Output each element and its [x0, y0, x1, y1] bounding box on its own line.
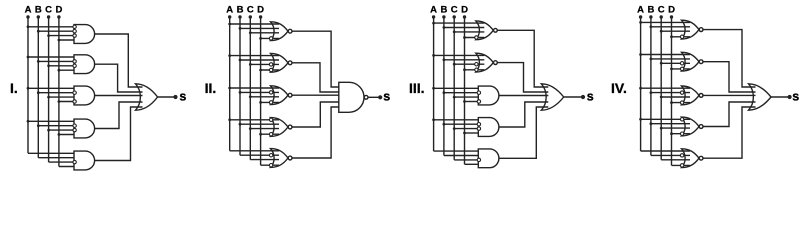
wire: gate II.G1 output to final gate input 1	[292, 31, 346, 87]
junction dot on line B at gate I.G4 tap	[37, 124, 40, 127]
junction dot on line B at gate III.G3 tap	[443, 91, 446, 94]
junction dot on line C at gate I.G2 tap	[47, 64, 50, 67]
wire: B to gate I.G4 input 2	[38, 125, 76, 127]
wire: C to gate I.G1 input 3	[49, 35, 76, 37]
junction dot on line D at gate III.G1 tap	[463, 36, 466, 39]
input bubble on II.G1 input 4	[269, 37, 272, 40]
wire: A to gate IV.G1 input 1	[641, 21, 690, 23]
junction dot on line A at gate III.G3 tap	[432, 87, 435, 90]
wire: A to gate III.G4 input 1	[434, 119, 481, 121]
NOR gate IV.G2	[682, 52, 700, 71]
input bubble on I.G1 input 1	[73, 25, 76, 28]
input terminal dot C (IV)	[660, 15, 663, 18]
wire: D to gate IV.G5 input 4	[672, 164, 691, 166]
junction dot on line D at gate II.G2 tap	[259, 69, 262, 72]
output terminal dot (I)	[173, 95, 177, 99]
wire: D to gate I.G3 input 4	[59, 101, 76, 103]
junction dot on line B at gate I.G2 tap	[37, 60, 40, 63]
wire: A to gate III.G5 input 1	[434, 150, 481, 152]
junction dot on line D at gate IV.G3 tap	[670, 101, 673, 104]
svg-text:B: B	[237, 5, 244, 16]
svg-text:C: C	[247, 5, 254, 16]
wire: A to gate IV.G5 input 1	[641, 150, 690, 152]
wire: gate III.G4 output to final gate input 4	[499, 102, 548, 127]
wire: B to gate II.G5 input 2	[240, 154, 279, 156]
wire: gate I.G2 output to final gate input 2	[95, 64, 143, 92]
input bubble on III.G4 input 2	[477, 123, 480, 126]
wire: C to gate I.G4 input 3	[49, 129, 76, 131]
junction dot on line A at gate III.G4 tap	[432, 118, 435, 121]
input terminal dot D (II)	[259, 15, 262, 18]
wire: D to gate IV.G1 input 4	[672, 36, 691, 38]
input bubble on IV.G4 input 4	[680, 132, 683, 135]
wire: C to gate II.G1 input 3	[250, 32, 279, 34]
junction dot on line C at gate I.G1 tap	[47, 34, 50, 37]
wire: D to gate II.G5 input 4	[261, 164, 279, 166]
input bubble on II.G5 input 2	[269, 154, 272, 157]
svg-text:s: s	[587, 89, 594, 103]
svg-text:s: s	[179, 89, 186, 103]
wire: gate IV.G2 output to final gate input 2	[703, 62, 755, 92]
final OR gate (IV)	[749, 84, 772, 110]
junction dot on line A at gate IV.G1 tap	[639, 21, 642, 24]
wire: final gate output to terminal s (IV)	[771, 96, 789, 98]
junction dot on line B at gate III.G1 tap	[443, 26, 446, 29]
output bubble of IV.G3	[699, 94, 703, 98]
wire: B to gate III.G5 input 2	[444, 155, 480, 157]
input line D (I) : vertical wire	[58, 17, 60, 167]
junction dot on line B at gate I.G1 tap	[37, 30, 40, 33]
junction dot on line C at gate III.G3 tap	[453, 96, 456, 99]
input bubble on II.G2 input 3	[269, 63, 272, 66]
input line A (III) : vertical wire	[433, 17, 435, 151]
junction dot on line D at gate III.G3 tap	[463, 100, 466, 103]
junction dot on line D at gate I.G3 tap	[58, 100, 61, 103]
wire: gate I.G1 output to final gate input 1	[95, 34, 143, 87]
input line B (I) : vertical wire	[37, 17, 39, 158]
junction dot on line A at gate III.G2 tap	[432, 54, 435, 57]
wire: C to gate III.G2 input 3	[454, 63, 484, 65]
wire: B to gate II.G1 input 2	[240, 27, 279, 29]
wire: gate II.G4 output to final gate input 4	[292, 102, 346, 127]
input bubble on I.G3 input 4	[73, 100, 76, 103]
wire: final gate output to terminal s (I)	[158, 96, 175, 98]
final NAND gate (II)	[339, 82, 364, 112]
wire: C to gate IV.G1 input 3	[661, 30, 690, 32]
NOR gate IV.G4	[682, 117, 700, 136]
wire: A to gate I.G1 input 1	[28, 26, 76, 28]
AND gate I.G1	[74, 25, 95, 44]
wire: A to gate III.G3 input 1	[434, 87, 481, 89]
wire: A to gate I.G3 input 1	[28, 87, 76, 89]
NOR gate II.G2	[271, 53, 289, 72]
input line B (IV) : vertical wire	[650, 17, 652, 155]
junction dot on line C at gate II.G4 tap	[249, 127, 252, 130]
wire: gate III.G1 output to final gate input 1	[498, 30, 549, 87]
junction dot on line A at gate IV.G2 tap	[639, 53, 642, 56]
svg-text:B: B	[440, 5, 447, 16]
input line C (I) : vertical wire	[48, 17, 50, 162]
wire: A to gate II.G3 input 1	[230, 87, 279, 89]
wire: final gate output to terminal s (III)	[564, 96, 582, 98]
junction dot on line D at gate III.G4 tap	[463, 132, 466, 135]
wire: C to gate IV.G3 input 3	[661, 96, 690, 98]
AND gate I.G2	[74, 55, 95, 74]
wire: B to gate I.G5 input 2	[38, 157, 76, 159]
junction dot on line D at gate I.G2 tap	[58, 69, 61, 72]
junction dot on line D at gate IV.G2 tap	[670, 68, 673, 71]
NOR gate II.G3	[271, 86, 289, 105]
junction dot on line A at gate I.G3 tap	[27, 87, 30, 90]
AND gate III.G5	[478, 149, 499, 168]
input bubble on II.G4 input 1	[269, 118, 272, 121]
input bubble on I.G2 input 2	[73, 60, 76, 63]
svg-text:B: B	[647, 5, 654, 16]
wire: C to gate I.G3 input 3	[49, 96, 76, 98]
junction dot on line D at gate III.G2 tap	[463, 68, 466, 71]
junction dot on line B at gate IV.G3 tap	[650, 91, 653, 94]
junction dot on line A at gate II.G1 tap	[228, 23, 231, 26]
output bubble of IV.G2	[699, 60, 703, 64]
wire: B to gate I.G3 input 2	[38, 92, 76, 94]
input bubble on III.G2 input 3	[475, 62, 478, 65]
input line D (IV) : vertical wire	[671, 17, 673, 165]
input line C (IV) : vertical wire	[660, 17, 662, 160]
wire: C to gate II.G2 input 3	[250, 63, 279, 65]
wire: A to gate IV.G3 input 1	[641, 87, 690, 89]
input bubble on IV.G5 input 2	[680, 154, 683, 157]
junction dot on line B at gate IV.G1 tap	[650, 25, 653, 28]
junction dot on line B at gate II.G2 tap	[239, 59, 242, 62]
wire: B to gate II.G3 input 2	[240, 91, 279, 93]
input bubble on III.G2 input 4	[475, 68, 478, 71]
junction dot on line C at gate IV.G3 tap	[660, 96, 663, 99]
wire: gate IV.G3 output to final gate input 3	[703, 94, 755, 96]
input bubble on I.G1 input 3	[73, 34, 76, 37]
wire: A to gate III.G1 input 1	[434, 22, 485, 24]
svg-text:A: A	[637, 5, 644, 16]
input bubble on II.G3 input 2	[269, 91, 272, 94]
svg-text:II.: II.	[205, 80, 217, 96]
input line A (II) : vertical wire	[229, 17, 231, 151]
wire: gate III.G3 output to final gate input 3	[499, 95, 548, 97]
wire: C to gate III.G1 input 3	[454, 31, 484, 33]
wire: A to gate II.G1 input 1	[230, 23, 279, 25]
input line B (III) : vertical wire	[443, 17, 445, 156]
output terminal dot (II)	[378, 95, 382, 99]
output bubble of II.G4	[288, 125, 292, 129]
junction dot on line A at gate IV.G4 tap	[639, 118, 642, 121]
wire: C to gate III.G3 input 3	[454, 96, 480, 98]
svg-text:D: D	[257, 5, 264, 16]
input bubble on I.G4 input 2	[73, 124, 76, 127]
input bubble on II.G4 input 4	[269, 133, 272, 136]
wire: D to gate I.G5 input 4	[59, 166, 76, 168]
wire: A to gate II.G2 input 1	[230, 55, 279, 57]
output bubble of II.G2	[288, 61, 292, 65]
wire: C to gate III.G4 input 3	[454, 128, 480, 130]
wire: gate III.G5 output to final gate input 5	[499, 107, 548, 158]
output bubble of IV.G1	[699, 28, 703, 32]
wire: D to gate III.G3 input 4	[465, 101, 481, 103]
junction dot on line D at gate II.G4 tap	[259, 133, 262, 136]
input terminal dot D (IV)	[670, 15, 673, 18]
junction dot on line D at gate I.G1 tap	[58, 39, 61, 42]
svg-text:C: C	[658, 5, 665, 16]
output terminal dot (IV)	[788, 95, 792, 99]
input line D (II) : vertical wire	[260, 17, 262, 165]
svg-text:C: C	[45, 5, 52, 16]
wire: A to gate III.G2 input 1	[434, 54, 485, 56]
AND gate III.G4	[478, 118, 499, 137]
output terminal dot (III)	[581, 95, 585, 99]
input bubble on I.G1 input 2	[73, 30, 76, 33]
input line C (II) : vertical wire	[249, 17, 251, 160]
input bubble on II.G2 input 4	[269, 68, 272, 71]
input terminal dot A (I)	[26, 15, 29, 18]
junction dot on line D at gate IV.G4 tap	[670, 132, 673, 135]
junction dot on line D at gate IV.G1 tap	[670, 35, 673, 38]
input line B (II) : vertical wire	[239, 17, 241, 155]
wire: C to gate IV.G5 input 3	[661, 159, 690, 161]
junction dot on line A at gate II.G4 tap	[228, 118, 231, 121]
input bubble on IV.G4 input 1	[680, 118, 683, 121]
svg-text:s: s	[383, 90, 390, 104]
wire: D to gate III.G2 input 4	[465, 69, 485, 71]
junction dot on line C at gate III.G2 tap	[453, 63, 456, 66]
input bubble on I.G3 input 2	[73, 91, 76, 94]
wire: C to gate IV.G2 input 3	[661, 62, 690, 64]
junction dot on line C at gate IV.G2 tap	[660, 62, 663, 65]
NOR gate II.G1	[271, 22, 289, 41]
wire: D to gate IV.G3 input 4	[672, 102, 691, 104]
svg-text:A: A	[25, 5, 32, 16]
wire: B to gate III.G2 input 2	[444, 59, 484, 61]
wire: D to gate I.G2 input 4	[59, 69, 76, 71]
wire: C to gate II.G4 input 3	[250, 128, 279, 130]
wire: C to gate I.G2 input 3	[49, 65, 76, 67]
wire: A to gate II.G4 input 1	[230, 119, 279, 121]
wire: B to gate II.G4 input 2	[240, 123, 279, 125]
wire: B to gate IV.G2 input 2	[651, 58, 690, 60]
final OR gate (I)	[136, 84, 158, 110]
wire: C to gate I.G5 input 3	[49, 161, 76, 163]
input terminal dot A (IV)	[639, 15, 642, 18]
wire: A to gate I.G2 input 1	[28, 56, 76, 58]
input terminal dot C (II)	[249, 15, 252, 18]
wire: D to gate IV.G2 input 4	[672, 68, 691, 70]
junction dot on line A at gate III.G1 tap	[432, 22, 435, 25]
input line A (I) : vertical wire	[27, 17, 29, 153]
input line C (III) : vertical wire	[453, 17, 455, 160]
wire: gate I.G3 output to final gate input 3	[95, 95, 143, 97]
junction dot on line C at gate III.G4 tap	[453, 127, 456, 130]
output bubble of final NAND (II)	[364, 95, 368, 99]
wire: gate IV.G4 output to final gate input 4	[703, 102, 755, 127]
output bubble of IV.G5	[699, 156, 703, 160]
NOR gate II.G4	[271, 118, 289, 137]
junction dot on line C at gate II.G1 tap	[249, 31, 252, 34]
input bubble on IV.G3 input 2	[680, 91, 683, 94]
NOR gate IV.G3	[682, 86, 700, 105]
input bubble on IV.G3 input 4	[680, 101, 683, 104]
wire: D to gate I.G4 input 4	[59, 134, 76, 136]
wire: D to gate II.G1 input 4	[261, 37, 279, 39]
input terminal dot C (I)	[47, 15, 50, 18]
final OR gate (III)	[541, 84, 563, 110]
wire: B to gate III.G1 input 2	[444, 27, 484, 29]
output bubble of II.G5	[288, 156, 292, 160]
wire: B to gate I.G1 input 2	[38, 30, 76, 32]
wire: B to gate IV.G1 input 2	[651, 26, 690, 28]
NOR gate III.G1	[476, 21, 494, 40]
output bubble of III.G2	[494, 61, 498, 65]
input terminal dot B (III)	[442, 15, 445, 18]
input bubble on III.G1 input 4	[475, 36, 478, 39]
junction dot on line A at gate II.G3 tap	[228, 87, 231, 90]
input terminal dot A (III)	[432, 15, 435, 18]
junction dot on line B at gate II.G1 tap	[239, 27, 242, 30]
junction dot on line C at gate II.G2 tap	[249, 63, 252, 66]
junction dot on line B at gate II.G4 tap	[239, 123, 242, 126]
junction dot on line A at gate I.G4 tap	[27, 120, 30, 123]
input bubble on III.G5 input 3	[477, 158, 480, 161]
wire: gate II.G2 output to final gate input 2	[292, 63, 346, 92]
wire: A to gate IV.G4 input 1	[641, 118, 690, 120]
wire: gate IV.G1 output to final gate input 1	[703, 30, 755, 87]
input bubble on III.G3 input 2	[477, 91, 480, 94]
output bubble of III.G1	[494, 28, 498, 32]
wire: B to gate II.G2 input 2	[240, 59, 279, 61]
NOR gate II.G5	[271, 149, 289, 168]
wire: D to gate IV.G4 input 4	[672, 133, 691, 135]
wire: D to gate III.G4 input 4	[465, 132, 481, 134]
input terminal dot D (I)	[57, 15, 60, 18]
junction dot on line C at gate IV.G4 tap	[660, 127, 663, 130]
svg-text:D: D	[461, 5, 468, 16]
wire: gate I.G5 output to final gate input 5	[95, 107, 143, 161]
svg-text:A: A	[226, 5, 233, 16]
input line A (IV) : vertical wire	[640, 17, 642, 151]
wire: gate IV.G5 output to final gate input 5	[703, 107, 755, 158]
input bubble on IV.G2 input 4	[680, 67, 683, 70]
wire: D to gate III.G5 input 4	[465, 163, 481, 165]
svg-text:IV.: IV.	[611, 80, 627, 96]
NOR gate IV.G1	[682, 20, 700, 39]
junction dot on line C at gate II.G3 tap	[249, 95, 252, 98]
AND gate III.G3	[478, 86, 499, 105]
input terminal dot B (IV)	[649, 15, 652, 18]
NOR gate III.G2	[476, 53, 494, 72]
junction dot on line B at gate III.G4 tap	[443, 123, 446, 126]
NOR gate IV.G5	[682, 149, 700, 168]
wire: gate III.G2 output to final gate input 2	[498, 63, 549, 92]
input terminal dot D (III)	[463, 15, 466, 18]
wire: C to gate III.G5 input 3	[454, 159, 480, 161]
junction dot on line D at gate II.G1 tap	[259, 37, 262, 40]
junction dot on line B at gate I.G3 tap	[37, 91, 40, 94]
junction dot on line A at gate IV.G3 tap	[639, 87, 642, 90]
input bubble on III.G3 input 4	[477, 100, 480, 103]
junction dot on line A at gate II.G2 tap	[228, 54, 231, 57]
wire: gate II.G5 output to final gate input 5	[292, 107, 346, 158]
wire: C to gate IV.G4 input 3	[661, 127, 690, 129]
input bubble on III.G4 input 3	[477, 127, 480, 130]
wire: final gate output to terminal s (II)	[368, 96, 379, 98]
input bubble on IV.G5 input 4	[680, 164, 683, 167]
junction dot on line C at gate I.G4 tap	[47, 129, 50, 132]
output bubble of II.G1	[288, 29, 292, 33]
wire: B to gate III.G3 input 2	[444, 92, 480, 94]
AND gate I.G3	[74, 86, 95, 105]
wire: B to gate IV.G4 input 2	[651, 123, 690, 125]
input terminal dot B (I)	[37, 15, 40, 18]
junction dot on line D at gate I.G4 tap	[58, 133, 61, 136]
input bubble on II.G5 input 4	[269, 164, 272, 167]
junction dot on line C at gate III.G1 tap	[453, 31, 456, 34]
input terminal dot A (II)	[228, 15, 231, 18]
wire: C to gate II.G3 input 3	[250, 96, 279, 98]
AND gate I.G5	[74, 151, 95, 170]
wire: A to gate I.G4 input 1	[28, 120, 76, 122]
wire: gate II.G3 output to final gate input 3	[292, 94, 346, 96]
svg-text:C: C	[451, 5, 458, 16]
wire: D to gate II.G4 input 4	[261, 133, 279, 135]
wire: D to gate I.G1 input 4	[59, 39, 76, 41]
input bubble on IV.G2 input 3	[680, 62, 683, 65]
junction dot on line C at gate I.G3 tap	[47, 96, 50, 99]
svg-text:I.: I.	[10, 80, 18, 96]
input bubble on I.G2 input 3	[73, 64, 76, 67]
svg-text:A: A	[430, 5, 437, 16]
wire: B to gate I.G2 input 2	[38, 60, 76, 62]
junction dot on line A at gate I.G1 tap	[27, 25, 30, 28]
input bubble on II.G3 input 4	[269, 101, 272, 104]
input terminal dot B (II)	[238, 15, 241, 18]
svg-text:III.: III.	[409, 80, 425, 96]
output bubble of II.G3	[288, 93, 292, 97]
wire: D to gate II.G2 input 4	[261, 69, 279, 71]
wire: D to gate III.G1 input 4	[465, 37, 485, 39]
junction dot on line B at gate IV.G2 tap	[650, 58, 653, 61]
AND gate I.G4	[74, 119, 95, 138]
junction dot on line B at gate III.G2 tap	[443, 58, 446, 61]
svg-text:B: B	[35, 5, 42, 16]
svg-text:D: D	[55, 5, 62, 16]
wire: A to gate I.G5 input 1	[28, 152, 76, 154]
junction dot on line B at gate II.G3 tap	[239, 91, 242, 94]
junction dot on line A at gate I.G2 tap	[27, 56, 30, 59]
junction dot on line B at gate IV.G4 tap	[650, 122, 653, 125]
svg-text:s: s	[792, 89, 799, 103]
wire: B to gate IV.G5 input 2	[651, 154, 690, 156]
wire: D to gate II.G3 input 4	[261, 101, 279, 103]
wire: gate I.G4 output to final gate input 4	[95, 102, 143, 129]
wire: A to gate II.G5 input 1	[230, 150, 279, 152]
input bubble on I.G4 input 3	[73, 128, 76, 131]
junction dot on line C at gate IV.G1 tap	[660, 30, 663, 33]
input line D (III) : vertical wire	[464, 17, 466, 164]
svg-text:D: D	[668, 5, 675, 16]
wire: A to gate IV.G2 input 1	[641, 54, 690, 56]
output bubble of IV.G4	[699, 125, 703, 129]
input bubble on IV.G1 input 4	[680, 35, 683, 38]
wire: B to gate IV.G3 input 2	[651, 92, 690, 94]
input terminal dot C (III)	[453, 15, 456, 18]
input bubble on I.G5 input 3	[73, 160, 76, 163]
junction dot on line D at gate II.G3 tap	[259, 101, 262, 104]
wire: C to gate II.G5 input 3	[250, 159, 279, 161]
